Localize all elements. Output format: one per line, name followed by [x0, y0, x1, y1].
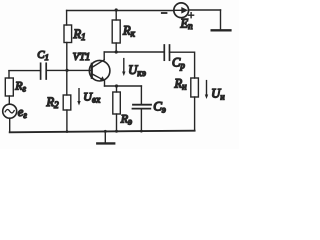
- node R2 bottom junction: [66, 130, 69, 133]
- svg-text:eг: eг: [18, 105, 28, 120]
- wire bottom rail: [10, 131, 195, 133]
- resistor R1: [64, 11, 72, 71]
- svg-text:Rэ: Rэ: [120, 112, 132, 127]
- wire collector horizontal: [104, 51, 164, 53]
- node collector junction: [115, 50, 118, 53]
- wire input: [9, 69, 92, 71]
- wire eg to bottom rail: [9, 118, 11, 132]
- resistor R2: [63, 71, 71, 132]
- svg-text:C1: C1: [37, 49, 49, 62]
- node emitter junction: [115, 84, 118, 87]
- wire Cp to Rn: [170, 52, 195, 78]
- node Re bottom junction: [115, 130, 118, 133]
- node Rk top junction: [115, 8, 118, 11]
- svg-text:R2: R2: [46, 95, 60, 110]
- ground (top right): [212, 10, 231, 30]
- svg-text:Uн: Uн: [211, 87, 224, 102]
- node base junction: [65, 69, 68, 72]
- resistor Rk: [112, 10, 120, 52]
- node ground junction: [104, 130, 107, 133]
- wire top rail: [67, 9, 221, 12]
- wire emitter horizontal: [105, 85, 142, 87]
- svg-text:Cр: Cр: [172, 56, 185, 71]
- svg-text:Uкэ: Uкэ: [128, 63, 146, 78]
- plus sign of En: [189, 13, 194, 18]
- power source E (circle with arrow): [174, 3, 189, 18]
- arrow Un: [205, 81, 208, 99]
- minus sign of En: [162, 12, 167, 14]
- ground (bottom): [97, 131, 114, 143]
- resistor Re: [113, 86, 121, 131]
- resistor Rg: [5, 71, 13, 105]
- capacitor Cp: [164, 45, 169, 60]
- svg-text:R1: R1: [73, 27, 86, 42]
- capacitor Ce: [133, 86, 152, 131]
- source eg (AC source circle): [3, 104, 17, 118]
- svg-text:Rн: Rн: [174, 77, 188, 92]
- wire emitter down: [104, 81, 106, 86]
- wire collector up: [103, 52, 105, 60]
- svg-text:Cэ: Cэ: [153, 99, 166, 115]
- svg-text:Uвх: Uвх: [83, 90, 100, 105]
- resistor Rn: [191, 78, 199, 131]
- node Ce bottom junction: [140, 130, 143, 133]
- arrow Uvx: [77, 89, 80, 106]
- svg-text:Rг: Rг: [14, 79, 26, 94]
- svg-text:Rк: Rк: [122, 24, 136, 39]
- capacitor C1: [41, 63, 47, 79]
- arrow Uke: [122, 59, 125, 76]
- svg-text:Eп: Eп: [180, 17, 194, 32]
- svg-text:VT1: VT1: [73, 52, 91, 63]
- transistor VT1: [89, 60, 110, 81]
